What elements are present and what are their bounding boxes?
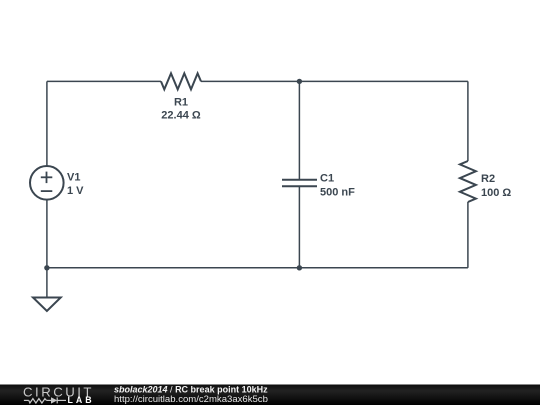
wire left vertical upper	[46, 81, 48, 166]
node junction ground	[44, 265, 49, 270]
wire bottom horizontal	[47, 267, 468, 269]
svg-text:C1: C1	[320, 173, 334, 185]
svg-text:22.44 Ω: 22.44 Ω	[161, 110, 201, 122]
V1 minus sign	[41, 190, 53, 192]
svg-text:sbolack2014 / RC break point 1: sbolack2014 / RC break point 10kHz	[114, 384, 268, 394]
logo mini resistor	[29, 399, 47, 403]
wire capacitor branch upper	[298, 81, 300, 179]
wire left vertical lower	[46, 200, 48, 268]
svg-text:LAB: LAB	[68, 395, 95, 405]
wire top horizontal right segment	[201, 80, 468, 82]
resistor R2	[460, 161, 476, 202]
logo mini diode triangle	[51, 397, 57, 403]
wire right vertical lower	[467, 202, 469, 268]
svg-text:R2: R2	[481, 173, 495, 185]
logo mini diode cathode bar	[56, 397, 58, 403]
svg-text:http://circuitlab.com/c2mka3ax: http://circuitlab.com/c2mka3ax6k5cb	[114, 394, 268, 405]
V1 plus sign	[41, 172, 53, 192]
logo mini schematic wire	[24, 397, 66, 403]
ground symbol	[33, 298, 61, 312]
svg-text:V1: V1	[67, 172, 80, 184]
wire right vertical upper	[467, 81, 469, 161]
node junction top	[297, 79, 302, 84]
node junction bottom	[297, 265, 302, 270]
wire top horizontal left segment	[47, 80, 161, 82]
capacitor C1 plates	[282, 179, 317, 181]
svg-text:500 nF: 500 nF	[320, 187, 355, 199]
svg-text:R1: R1	[174, 97, 188, 109]
svg-text:100 Ω: 100 Ω	[481, 187, 511, 199]
svg-text:1 V: 1 V	[67, 185, 84, 197]
voltage source V1 circle	[30, 166, 64, 200]
resistor R1	[161, 73, 201, 89]
wire ground stem	[46, 268, 48, 298]
wire capacitor branch lower	[298, 186, 300, 268]
